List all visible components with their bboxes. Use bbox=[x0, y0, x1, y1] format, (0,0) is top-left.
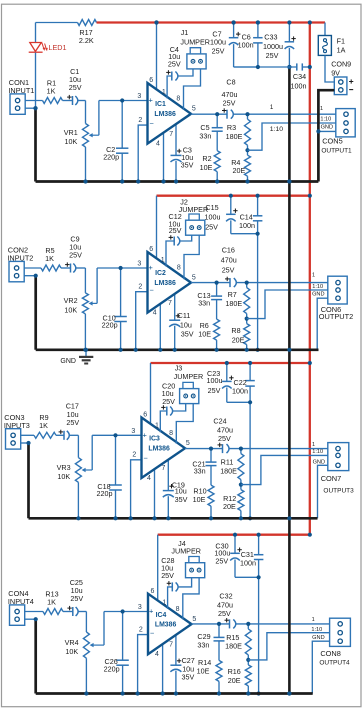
svg-text:1: 1 bbox=[320, 106, 323, 112]
junction input ground ch2 bbox=[34, 274, 38, 278]
junction rail bus ch2 bbox=[287, 348, 291, 352]
svg-text:1: 1 bbox=[161, 257, 165, 264]
wire 1:10 tap ch3 bbox=[241, 455, 328, 484]
svg-text:C15: C15 bbox=[205, 203, 218, 212]
capacitor C16 (470u) bbox=[225, 277, 236, 287]
svg-text:1: 1 bbox=[270, 104, 274, 111]
wire 1:10 tap ch4 bbox=[248, 633, 329, 660]
junction rail ch2 bbox=[173, 348, 177, 352]
connector CON8 bbox=[330, 618, 351, 646]
CON9 minus mark bbox=[349, 89, 353, 91]
junction rail ch2 bbox=[245, 348, 249, 352]
junction feed bus ch3 bbox=[308, 361, 312, 365]
svg-text:100u: 100u bbox=[205, 213, 221, 222]
svg-text:3: 3 bbox=[137, 261, 141, 268]
svg-text:VR3: VR3 bbox=[57, 463, 71, 472]
svg-text:10K: 10K bbox=[65, 647, 78, 656]
svg-text:5: 5 bbox=[192, 106, 196, 113]
junction rail ch3 bbox=[129, 516, 133, 520]
svg-text:1: 1 bbox=[162, 599, 166, 606]
wire IC4 pin 4 to ground bbox=[162, 643, 164, 694]
svg-text:IC4: IC4 bbox=[156, 612, 167, 619]
labels components ch4 bbox=[45, 578, 119, 674]
capacitor C34 (100n) bbox=[297, 63, 310, 70]
svg-text:GND: GND bbox=[313, 459, 325, 465]
junction rail ch4 bbox=[121, 691, 125, 695]
junction rail bus ch3 bbox=[287, 516, 291, 520]
svg-text:6: 6 bbox=[143, 412, 147, 419]
junction pin3 row ch2 bbox=[119, 266, 123, 270]
svg-text:C24: C24 bbox=[213, 417, 226, 426]
svg-text:3: 3 bbox=[131, 428, 135, 435]
svg-text:8: 8 bbox=[176, 606, 180, 613]
resistor R16 (20E) bbox=[245, 660, 251, 694]
svg-text:25V: 25V bbox=[161, 571, 174, 580]
junction rail C6 bbox=[256, 20, 260, 24]
svg-text:R8: R8 bbox=[231, 326, 240, 335]
capacitor C7 (100u) bbox=[229, 23, 258, 68]
wire input ground drop ch3 (black) bbox=[27, 443, 30, 518]
wire rail to fuse bbox=[324, 23, 326, 36]
junction rail ch3 bbox=[152, 516, 156, 520]
junction rail ch2 bbox=[83, 348, 87, 352]
svg-text:25V: 25V bbox=[66, 418, 79, 427]
capacitor C3 (10u bypass) bbox=[171, 123, 182, 182]
capacitor C26 (220p) bbox=[116, 612, 129, 694]
junction supply-cap line ch4 bbox=[257, 575, 261, 579]
svg-text:R16: R16 bbox=[228, 667, 241, 676]
svg-text:4: 4 bbox=[153, 309, 157, 316]
svg-text:10K: 10K bbox=[57, 472, 70, 481]
junction rail ch4 bbox=[246, 691, 250, 695]
wire IC1 pin 1 riser bbox=[167, 76, 172, 98]
junction feed 100u ch4 bbox=[233, 533, 237, 537]
junction rail ch1 bbox=[136, 179, 140, 183]
junction feed 100n ch2 bbox=[256, 194, 260, 198]
svg-text:25V: 25V bbox=[266, 51, 279, 60]
svg-text:R3: R3 bbox=[227, 123, 236, 132]
svg-text:C8: C8 bbox=[226, 78, 235, 87]
wire ground rail ch2 (black) bbox=[36, 348, 319, 351]
svg-text:100n: 100n bbox=[291, 82, 307, 91]
capacitor C31 (100n) bbox=[254, 535, 264, 578]
capacitor C17 (10u coupling) bbox=[59, 430, 79, 458]
svg-text:1K: 1K bbox=[47, 597, 56, 606]
wire fuse to CON9 bbox=[325, 55, 334, 82]
svg-text:2: 2 bbox=[138, 117, 142, 124]
junction GND bus top bbox=[287, 65, 291, 69]
wire ground rail ch4 (black) bbox=[36, 692, 313, 695]
wire IC3 pin 5 output bbox=[185, 448, 223, 450]
svg-text:CON8: CON8 bbox=[320, 649, 341, 658]
jumper J4 bbox=[186, 557, 205, 578]
wire supply-cap ground drop ch2 bbox=[257, 234, 259, 350]
svg-text:1000u: 1000u bbox=[263, 42, 283, 51]
svg-text:GND: GND bbox=[60, 358, 76, 365]
IC1 pin labels bbox=[137, 77, 196, 147]
junction input ground ch4 bbox=[34, 617, 38, 621]
connector CON6 bbox=[328, 276, 347, 304]
junction gnd line C6 bbox=[256, 65, 260, 69]
svg-text:25V: 25V bbox=[168, 59, 181, 68]
wire 1:10 tap ch2 bbox=[247, 290, 328, 319]
wire CON5 GND stub bbox=[318, 130, 335, 132]
svg-text:100n: 100n bbox=[238, 40, 254, 49]
labels components ch2 bbox=[45, 234, 117, 329]
resistor R10 (10E) bbox=[208, 485, 214, 518]
junction pin3 row ch3 bbox=[113, 433, 117, 437]
connector CON7 bbox=[328, 443, 349, 471]
wire input ground stub ch4 bbox=[25, 618, 36, 620]
junction CON5 gnd bbox=[316, 129, 320, 133]
junction rail ch4 bbox=[84, 691, 88, 695]
svg-text:180E: 180E bbox=[220, 466, 237, 475]
capacitor C30 (100u) bbox=[230, 535, 258, 578]
wire IC4 pin 5 output bbox=[192, 623, 230, 625]
svg-text:1: 1 bbox=[162, 89, 166, 96]
junction C34 to bus bbox=[308, 65, 312, 69]
junction output C33n ch1 bbox=[215, 112, 219, 116]
junction rail ch4 bbox=[161, 691, 165, 695]
svg-text:OUTPUT1: OUTPUT1 bbox=[321, 148, 352, 155]
wire IC2 pin 5 output bbox=[191, 282, 230, 284]
capacitor C1 (10u coupling) bbox=[67, 95, 85, 124]
wire gnd line ch1 bbox=[234, 66, 297, 68]
svg-text:100u: 100u bbox=[207, 376, 223, 385]
wire input ground stub ch2 bbox=[24, 275, 36, 277]
svg-text:C16: C16 bbox=[222, 246, 235, 255]
capacitor C6 (100n) bbox=[253, 23, 263, 68]
junction feed 100n ch4 bbox=[257, 533, 261, 537]
svg-text:C22: C22 bbox=[234, 378, 247, 387]
svg-text:−: − bbox=[150, 119, 154, 128]
CON9 plus mark bbox=[349, 79, 353, 83]
resistor R9 bbox=[34, 432, 56, 438]
svg-text:33n: 33n bbox=[194, 466, 206, 475]
resistor R17 bbox=[78, 20, 97, 26]
svg-text:35V: 35V bbox=[175, 495, 188, 504]
svg-text:1: 1 bbox=[312, 442, 315, 448]
wire IC3 pin 1 riser bbox=[160, 411, 167, 432]
svg-text:JUMPER: JUMPER bbox=[174, 372, 204, 381]
junction output R ch2 bbox=[245, 281, 249, 285]
svg-text:+: + bbox=[149, 263, 153, 272]
svg-text:IC3: IC3 bbox=[149, 436, 160, 443]
resistor R4 (20E) bbox=[245, 150, 251, 181]
svg-text:1K: 1K bbox=[47, 86, 56, 95]
svg-text:7: 7 bbox=[169, 641, 173, 648]
wire CON9 ground (black) bbox=[318, 90, 334, 181]
junction rail ch4 bbox=[136, 691, 140, 695]
junction rail ch1 bbox=[174, 179, 178, 183]
wire IC1 pin 5 output bbox=[191, 113, 227, 115]
labels input ch3 bbox=[4, 413, 30, 430]
wire input signal ch2 bbox=[24, 267, 41, 269]
svg-text:1:10: 1:10 bbox=[311, 627, 322, 633]
wire C to jumper ch1 bbox=[178, 69, 193, 76]
LED to input wire bbox=[35, 53, 37, 109]
capacitor C10 (220p) bbox=[114, 268, 127, 350]
capacitor C21 (33n) bbox=[206, 449, 217, 486]
svg-text:33n: 33n bbox=[199, 131, 211, 140]
svg-text:OUTPUT4: OUTPUT4 bbox=[319, 660, 350, 667]
svg-text:2: 2 bbox=[139, 626, 143, 633]
connector CON9 bbox=[334, 77, 347, 95]
wire jumper to pin 8 ch3 bbox=[176, 404, 193, 444]
svg-text:25V: 25V bbox=[69, 251, 82, 260]
svg-text:5: 5 bbox=[186, 440, 190, 447]
svg-text:33n: 33n bbox=[197, 640, 209, 649]
wire +9V rail (red top) bbox=[97, 21, 326, 23]
svg-text:10E: 10E bbox=[198, 329, 211, 338]
resistor R15 (180E) bbox=[245, 624, 251, 660]
svg-text:25V: 25V bbox=[69, 83, 82, 92]
svg-text:LM386: LM386 bbox=[155, 621, 177, 628]
svg-text:1:10: 1:10 bbox=[320, 117, 331, 123]
wire +9V bus (red vertical) bbox=[309, 23, 311, 535]
fuse F1 bbox=[318, 36, 331, 56]
svg-text:33n: 33n bbox=[198, 299, 210, 308]
junction gnd line C33 bbox=[287, 65, 291, 69]
svg-text:220p: 220p bbox=[103, 152, 119, 161]
svg-text:R11: R11 bbox=[221, 458, 234, 467]
labels components ch1 bbox=[47, 67, 120, 161]
wire wiper to pin3 ch4 bbox=[104, 611, 148, 613]
wire +9V feed channel 2 (red) bbox=[157, 195, 311, 197]
connector CON3 bbox=[6, 429, 21, 449]
wire C to jumper ch2 bbox=[180, 235, 192, 241]
labels input ch2 bbox=[7, 246, 33, 263]
svg-text:180E: 180E bbox=[225, 641, 242, 650]
svg-text:1:10: 1:10 bbox=[312, 284, 323, 290]
wire +9V feed channel 4 (red) bbox=[158, 534, 311, 536]
wire supply-cap ground drop ch3 bbox=[249, 402, 251, 518]
svg-text:−: − bbox=[150, 285, 154, 294]
capacitor C19 (10u bypass) bbox=[163, 458, 174, 518]
svg-text:100n: 100n bbox=[240, 558, 256, 567]
wire R to C ch3 bbox=[56, 434, 64, 436]
svg-text:LM386: LM386 bbox=[154, 111, 176, 118]
jumper J3 bbox=[180, 382, 199, 403]
junction rail drop ch4 bbox=[257, 691, 261, 695]
junction rail drop ch2 bbox=[256, 348, 260, 352]
wire supply-cap ground drop ch4 bbox=[258, 577, 260, 693]
resistor R5 bbox=[41, 265, 61, 271]
wire IC2 pin 1 riser bbox=[166, 241, 174, 267]
svg-text:20E: 20E bbox=[228, 676, 241, 685]
wire input signal ch4 bbox=[25, 611, 43, 613]
wire output GND ch3 bbox=[318, 465, 328, 518]
junction feed bus ch2 bbox=[308, 194, 312, 198]
op-amp IC3 bbox=[142, 418, 186, 479]
capacitor C5 (33n) bbox=[212, 114, 223, 151]
capacitor C11 (10u bypass) bbox=[169, 292, 180, 350]
capacitor C14 (100n) bbox=[253, 196, 263, 234]
svg-text:6: 6 bbox=[150, 588, 154, 595]
wire wiper to pin3 ch1 bbox=[99, 100, 148, 102]
connector CON2 bbox=[9, 261, 24, 281]
junction rail ch1 bbox=[215, 179, 219, 183]
svg-text:INPUT4: INPUT4 bbox=[8, 597, 34, 606]
resistor R3 (180E) bbox=[245, 114, 251, 150]
junction output R ch4 bbox=[246, 622, 250, 626]
junction divider ch2 bbox=[245, 317, 249, 321]
junction output R ch1 bbox=[245, 112, 249, 116]
svg-text:6: 6 bbox=[149, 77, 153, 84]
capacitor C32 (470u) bbox=[225, 618, 236, 628]
svg-text:7: 7 bbox=[168, 300, 172, 307]
junction feed 100u ch1 bbox=[232, 20, 236, 24]
svg-text:25V: 25V bbox=[212, 47, 225, 56]
junction rail ch1 bbox=[83, 179, 87, 183]
svg-text:LM386: LM386 bbox=[148, 445, 170, 452]
resistor R1 bbox=[43, 98, 63, 104]
svg-text:C11: C11 bbox=[178, 311, 191, 320]
svg-text:VR1: VR1 bbox=[64, 128, 78, 137]
resistor R12 (20E) bbox=[238, 485, 244, 519]
resistor R14 (10E) bbox=[216, 660, 222, 693]
wire C to jumper ch3 bbox=[173, 404, 186, 411]
svg-text:C34: C34 bbox=[293, 72, 306, 81]
capacitor C12 (10u gain) bbox=[169, 235, 180, 245]
resistor R2 (10E) bbox=[214, 151, 220, 182]
wire IC2 pin 4 to ground bbox=[159, 302, 161, 350]
wire IC4 pin 6 riser bbox=[157, 535, 159, 603]
svg-text:1: 1 bbox=[155, 423, 159, 430]
capacitor C33 (1000u) bbox=[285, 23, 296, 68]
svg-text:5: 5 bbox=[192, 616, 196, 623]
labels values ch1 bbox=[79, 28, 352, 175]
jumper J2 bbox=[186, 214, 205, 235]
svg-text:2: 2 bbox=[138, 283, 142, 290]
resistor R8 (20E) bbox=[244, 319, 250, 350]
wire IC3 pin 4 to ground bbox=[154, 468, 156, 519]
svg-text:4: 4 bbox=[147, 475, 151, 482]
svg-text:CON5: CON5 bbox=[322, 136, 343, 145]
svg-text:LED1: LED1 bbox=[49, 43, 67, 52]
capacitor C27 (10u bypass) bbox=[170, 633, 181, 693]
svg-text:220p: 220p bbox=[97, 489, 113, 498]
capacitor C18 (220p) bbox=[109, 435, 122, 518]
wire output GND ch4 bbox=[312, 641, 329, 693]
svg-text:25V: 25V bbox=[162, 397, 175, 406]
svg-text:2.2K: 2.2K bbox=[79, 36, 94, 45]
wire IC4 pin 2 to ground bbox=[138, 635, 148, 694]
junction output C33n ch3 bbox=[209, 447, 213, 451]
svg-text:3: 3 bbox=[138, 604, 142, 611]
wire input ground drop ch1 (black) bbox=[34, 108, 37, 181]
svg-text:470u: 470u bbox=[221, 256, 237, 265]
junction rail corner bbox=[308, 20, 312, 24]
svg-text:VR4: VR4 bbox=[65, 638, 79, 647]
svg-text:4: 4 bbox=[156, 140, 160, 147]
capacitor C13 (33n) bbox=[211, 283, 222, 320]
junction output C33n ch4 bbox=[217, 622, 221, 626]
svg-text:3: 3 bbox=[137, 93, 141, 100]
capacitor C20 (10u gain) bbox=[161, 405, 172, 415]
svg-text:10E: 10E bbox=[193, 495, 206, 504]
wire wiper to pin3 ch3 bbox=[92, 434, 141, 436]
junction feed bus ch4 bbox=[308, 533, 312, 537]
svg-text:25V: 25V bbox=[215, 556, 228, 565]
svg-text:−: − bbox=[150, 628, 154, 637]
junction feed 100n ch3 bbox=[248, 361, 252, 365]
svg-text:35V: 35V bbox=[181, 329, 194, 338]
svg-text:−: − bbox=[144, 453, 148, 462]
capacitor C25 (10u coupling) bbox=[67, 606, 86, 632]
svg-text:8: 8 bbox=[177, 265, 181, 272]
svg-text:9V: 9V bbox=[331, 68, 340, 77]
junction GND bus rail ch3 bbox=[287, 516, 291, 520]
resistor R6 (10E) bbox=[214, 319, 220, 350]
svg-text:25V: 25V bbox=[218, 609, 231, 618]
wire input ground drop ch4 (black) bbox=[34, 619, 37, 693]
svg-text:4: 4 bbox=[155, 651, 159, 658]
junction GND bus rail ch1 bbox=[287, 179, 291, 183]
svg-text:VR2: VR2 bbox=[64, 296, 78, 305]
junction rail ch3 bbox=[113, 516, 117, 520]
svg-text:IC2: IC2 bbox=[155, 270, 166, 277]
svg-text:10K: 10K bbox=[64, 305, 77, 314]
labels values ch4 bbox=[161, 539, 350, 685]
junction rail ch3 bbox=[166, 516, 170, 520]
svg-text:180E: 180E bbox=[226, 132, 243, 141]
svg-text:100u: 100u bbox=[210, 38, 226, 47]
svg-text:+: + bbox=[143, 430, 147, 439]
junction divider ch3 bbox=[239, 483, 243, 487]
labels values ch3 bbox=[162, 363, 355, 511]
junction rail ch3 bbox=[76, 516, 80, 520]
wire input ground drop ch2 (black) bbox=[34, 276, 37, 350]
svg-text:1K: 1K bbox=[45, 254, 54, 263]
svg-text:25V: 25V bbox=[169, 226, 182, 235]
svg-text:1:10: 1:10 bbox=[270, 126, 283, 133]
resistor R13 bbox=[43, 609, 63, 615]
wire IC2 pin 2 to ground bbox=[136, 292, 148, 350]
connector CON5 bbox=[336, 109, 355, 137]
svg-text:INPUT1: INPUT1 bbox=[8, 86, 34, 95]
junction GND bus rail ch2 bbox=[287, 348, 291, 352]
junction supply-cap line ch3 bbox=[248, 400, 252, 404]
svg-text:35V: 35V bbox=[181, 161, 194, 170]
svg-text:10u: 10u bbox=[180, 320, 192, 329]
svg-text:J1: J1 bbox=[181, 28, 189, 37]
svg-text:GND: GND bbox=[312, 635, 324, 641]
junction rail drop ch3 bbox=[248, 516, 252, 520]
svg-text:25V: 25V bbox=[70, 594, 83, 603]
LED feed wire bbox=[35, 23, 37, 43]
svg-text:10E: 10E bbox=[200, 163, 213, 172]
junction rail ch2 bbox=[158, 348, 162, 352]
svg-text:IC1: IC1 bbox=[155, 101, 166, 108]
svg-text:20E: 20E bbox=[223, 502, 236, 511]
svg-text:25V: 25V bbox=[218, 434, 231, 443]
junction rail C33 bbox=[287, 20, 291, 24]
wire wiper to pin3 ch2 bbox=[97, 267, 147, 269]
potentiometer VR3 bbox=[75, 435, 92, 518]
svg-text:10K: 10K bbox=[65, 137, 78, 146]
junction rail bus ch4 bbox=[287, 691, 291, 695]
junction GND bus rail ch4 bbox=[287, 691, 291, 695]
svg-text:C32: C32 bbox=[219, 592, 232, 601]
junction rail ch3 bbox=[209, 516, 213, 520]
wire R to C ch2 bbox=[61, 267, 71, 269]
wire input ground stub ch1 bbox=[25, 107, 35, 109]
potentiometer VR2 bbox=[82, 268, 97, 350]
svg-text:LM386: LM386 bbox=[154, 280, 176, 287]
IC4 pin labels bbox=[138, 588, 197, 658]
labels values ch2 bbox=[169, 197, 354, 344]
